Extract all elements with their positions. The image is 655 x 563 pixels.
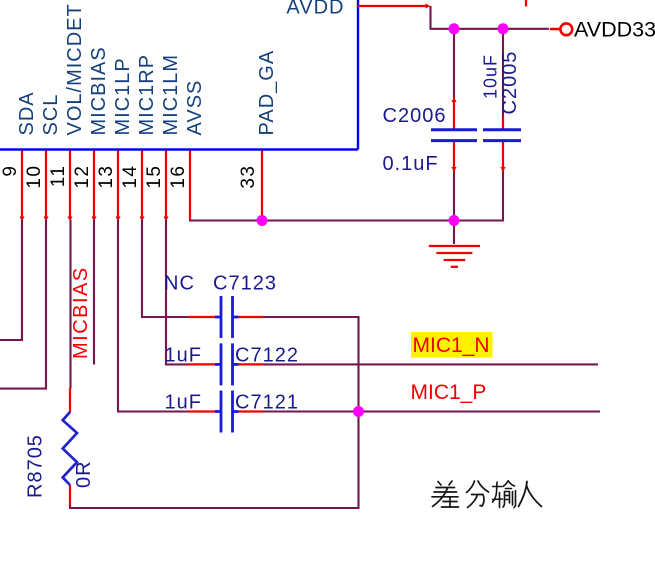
U1 pin 9 SDA stub: [19, 151, 24, 222]
wire C2006 bottom to ground node: [453, 172, 455, 221]
svg-text:12: 12: [72, 165, 93, 189]
net label MIC1_N (yellow highlight): [411, 332, 493, 358]
wire MIC1LM (pin 15 to C7122 left): [166, 220, 188, 365]
U1 pin 14 MIC1RP stub: [139, 151, 144, 222]
svg-text:AVDD33: AVDD33: [574, 18, 655, 42]
svg-text:C7122: C7122: [235, 345, 299, 367]
svg-text:33: 33: [238, 165, 259, 189]
svg-text:MIC1_P: MIC1_P: [411, 381, 487, 404]
capacitor C2006 pin stubs: [451, 97, 456, 172]
capacitor C7122 pin stubs: [188, 363, 264, 365]
wire R8705 bottom to MIC1_P junction: [70, 413, 359, 508]
wire VOL/MICDET (pin 11 down to R8705): [69, 220, 71, 389]
svg-text:0.1uF: 0.1uF: [383, 153, 439, 175]
svg-text:R8705: R8705: [25, 434, 47, 498]
svg-text:C2005: C2005: [499, 51, 521, 115]
svg-text:VOL/MICDET: VOL/MICDET: [64, 3, 86, 135]
wire MIC1_P: [263, 410, 600, 412]
wire C7123 to MIC1_P: [263, 317, 359, 412]
svg-text:15: 15: [144, 165, 165, 189]
svg-text:NC: NC: [164, 273, 195, 295]
wire MIC1RP (pin 14 to C7123 left): [142, 220, 188, 317]
annotation 差分输入 (differential input), drawn as strokes: [432, 481, 459, 507]
wire AVDD to AVDD33 terminal: [431, 6, 549, 29]
svg-text:11: 11: [48, 165, 69, 188]
svg-text:C2006: C2006: [383, 105, 447, 127]
U1 pin AVDD stub: [358, 5, 427, 7]
wire MIC1LP (pin 13 to C7121 left): [118, 220, 188, 412]
junction dot MIC1_P: [353, 406, 364, 417]
U1 pin 12 MICBIAS stub: [91, 151, 96, 222]
capacitor C7121 pin stubs: [188, 410, 264, 412]
svg-text:MIC1RP: MIC1RP: [136, 54, 158, 136]
svg-text:SDA: SDA: [16, 91, 38, 135]
power symbol stub (cut off at top edge): [525, 0, 527, 6]
svg-text:C7123: C7123: [213, 273, 277, 295]
resistor R8705 pin stubs: [69, 388, 71, 506]
svg-text:0R: 0R: [73, 460, 95, 488]
svg-text:1uF: 1uF: [165, 345, 202, 367]
terminal AVDD33 (off-page connector circle): [551, 28, 560, 31]
svg-text:SCL: SCL: [40, 94, 62, 136]
svg-text:1uF: 1uF: [165, 392, 202, 414]
svg-text:16: 16: [168, 165, 189, 189]
wire MIC1_N: [263, 363, 598, 365]
resistor R8705 zigzag body: [63, 412, 77, 485]
U1 pin 15 MIC1LM stub: [163, 151, 168, 222]
junction dot AVDD/C2005: [498, 23, 509, 34]
svg-text:PAD_GA: PAD_GA: [256, 50, 278, 136]
U1 pin 13 MIC1LP stub: [115, 151, 120, 222]
svg-text:10: 10: [24, 165, 45, 189]
wire ground stem: [453, 221, 455, 245]
svg-text:MIC1LP: MIC1LP: [112, 57, 134, 135]
svg-text:14: 14: [120, 165, 141, 189]
U1 pin 10 SCL stub: [43, 151, 48, 222]
svg-text:13: 13: [96, 165, 117, 189]
capacitor C7123 pin stubs: [188, 316, 264, 318]
svg-text:AVDD: AVDD: [286, 0, 344, 19]
wire MICBIAS (pin 12, open end): [93, 220, 95, 365]
svg-text:MICBIAS: MICBIAS: [70, 266, 92, 359]
capacitor C2005 plates: [483, 130, 521, 141]
ground symbol: [429, 246, 480, 267]
capacitor C7123 plates: [215, 296, 239, 338]
junction dot pin33/AVSS: [257, 215, 268, 226]
svg-text:MIC1_N: MIC1_N: [413, 334, 490, 357]
svg-text:C7121: C7121: [235, 392, 299, 414]
U1 pin names SDA SCL VOL/MICDET MICBIAS MIC1LP MIC1RP MIC1LM AVSS PAD_GA: [16, 3, 278, 135]
svg-text:9: 9: [0, 165, 21, 177]
svg-text:AVSS: AVSS: [184, 80, 206, 136]
capacitor C2006 plates: [431, 130, 477, 141]
capacitor C2005 pin stubs: [500, 117, 505, 172]
wire AVDD rail to C2005 top: [502, 29, 504, 117]
junction dot C2006/AVSS: [449, 215, 460, 226]
U1 pin 11 VOL/MICDET stub: [67, 151, 72, 222]
capacitor C7122 plates: [215, 343, 239, 385]
svg-text:MICBIAS: MICBIAS: [88, 46, 110, 135]
IC U1 body outline (bottom-left portion): [0, 0, 358, 150]
wire AVDD rail to C2006 top: [453, 29, 455, 97]
capacitor C7121 plates: [215, 391, 239, 433]
U1 pin numbers 9 10 11 12 13 14 15 16 33: [0, 165, 259, 189]
svg-text:10uF: 10uF: [481, 54, 501, 99]
wire AVSS (pin 16 to ground node, C2006/C2005 bottoms): [190, 172, 503, 221]
junction dot AVDD/C2006: [449, 23, 460, 34]
wire SCL (pin 10 to left edge): [0, 220, 46, 389]
U1 pin 16 AVSS stub: [189, 151, 191, 220]
wire SDA (pin 9 to left edge): [0, 220, 22, 340]
svg-text:MIC1LM: MIC1LM: [160, 54, 182, 136]
U1 pin AVDD stub arrowhead: [426, 3, 431, 8]
U1 pin 33 PAD_GA stub: [261, 151, 263, 219]
